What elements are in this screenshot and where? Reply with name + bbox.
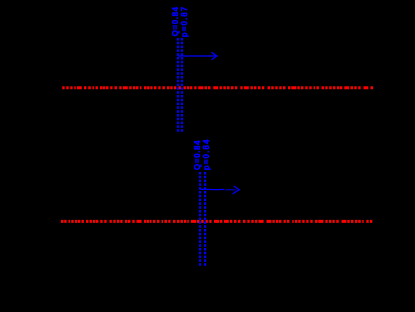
svg-text:p=0.84: p=0.84 — [202, 138, 211, 170]
svg-text:Q=0.84: Q=0.84 — [193, 140, 202, 170]
svg-text:Q=0.84: Q=0.84 — [171, 6, 180, 36]
svg-text:p=0.87: p=0.87 — [180, 6, 189, 37]
